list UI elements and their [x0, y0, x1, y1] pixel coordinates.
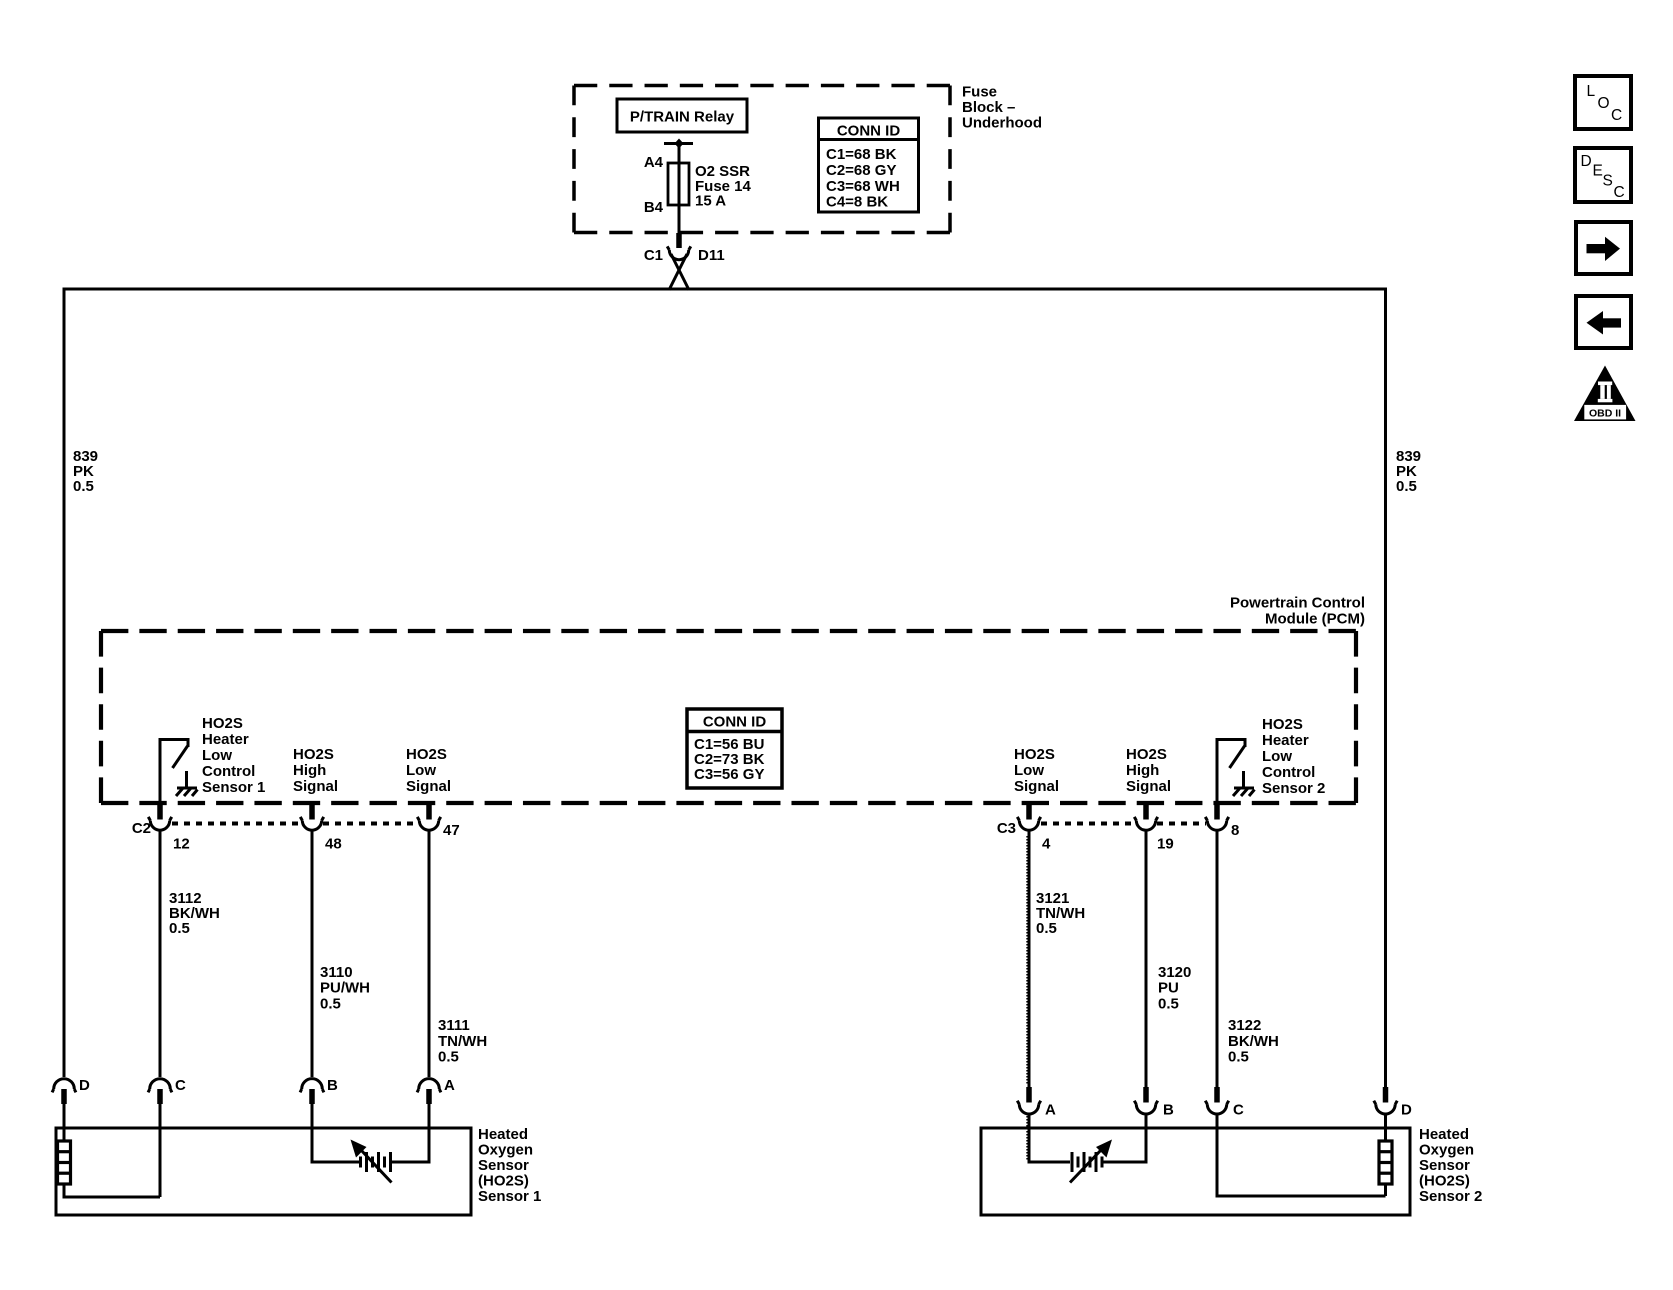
sensor2 variable battery plates: [1072, 1152, 1102, 1172]
wire 3121 dotted edge: [1026, 836, 1028, 1085]
svg-text:C: C: [1233, 1102, 1244, 1119]
svg-text:Fuse: Fuse: [962, 84, 997, 101]
svg-text:Sensor 2: Sensor 2: [1262, 780, 1325, 797]
sensor2 heater bottom wire: [1384, 1184, 1387, 1196]
svg-text:Oxygen: Oxygen: [1419, 1142, 1474, 1159]
HO2S sensor 1 box: [56, 1128, 471, 1215]
svg-text:D: D: [1581, 153, 1592, 170]
svg-text:Low: Low: [1262, 748, 1292, 765]
sensor2 connector cup D: [1383, 1087, 1389, 1103]
PCM pin 47 cup: [417, 817, 440, 830]
svg-text:47: 47: [443, 822, 460, 839]
sensor1 connector cup B: [300, 1079, 324, 1093]
sensor1 wire D into heater: [63, 1104, 66, 1141]
PCM CONN ID table: [687, 709, 782, 788]
svg-text:Control: Control: [1262, 764, 1315, 781]
svg-text:0.5: 0.5: [1036, 920, 1057, 937]
wire 3122 from pin 8: [1216, 830, 1219, 1087]
svg-text:8: 8: [1231, 822, 1239, 839]
PCM pin 4 stub: [1026, 803, 1032, 820]
svg-text:C: C: [1614, 184, 1625, 201]
svg-text:High: High: [293, 762, 326, 779]
svg-text:Signal: Signal: [1014, 778, 1059, 795]
svg-text:A: A: [1045, 1102, 1056, 1119]
fuse block CONN ID table: [819, 118, 919, 212]
P/TRAIN Relay box: [617, 99, 747, 132]
svg-text:TN/WH: TN/WH: [438, 1033, 487, 1050]
chassis ground sensor 1: [176, 788, 198, 797]
right 839 PK wire vertical: [1384, 288, 1387, 1088]
svg-text:C1: C1: [644, 247, 663, 264]
PCM pin 48 cup: [300, 817, 323, 830]
svg-text:Sensor 1: Sensor 1: [478, 1188, 541, 1205]
PCM pin 19 stub: [1143, 803, 1149, 820]
svg-text:C3=68 WH: C3=68 WH: [826, 178, 900, 195]
HO2S heater low control driver sensor 1 (switch + ground): [159, 738, 162, 804]
svg-text:Block –: Block –: [962, 99, 1015, 116]
svg-text:P/TRAIN Relay: P/TRAIN Relay: [630, 109, 735, 126]
sensor2 connector cup C: [1214, 1087, 1220, 1103]
sensor2 wire A dotted edge: [1026, 1116, 1028, 1160]
back arrow glyph: [1587, 311, 1622, 335]
sensor1 connector cup C: [148, 1079, 172, 1093]
wire 3121 from pin 4: [1028, 830, 1031, 1087]
fuse F14 rectangle: [668, 163, 689, 205]
svg-text:(HO2S): (HO2S): [478, 1173, 529, 1190]
svg-text:C: C: [175, 1077, 186, 1094]
svg-text:PU: PU: [1158, 980, 1179, 997]
svg-text:B4: B4: [644, 199, 664, 216]
LOC icon box: [1575, 76, 1631, 129]
svg-text:D11: D11: [698, 247, 725, 264]
PCM pin 48 stub: [309, 803, 315, 820]
svg-text:0.5: 0.5: [320, 996, 341, 1013]
HO2S sensor 2 box: [981, 1128, 1410, 1215]
DESC icon box: [1575, 148, 1631, 202]
C2 dotted connector line: [172, 822, 418, 826]
svg-text:(HO2S): (HO2S): [1419, 1173, 1470, 1190]
svg-text:Signal: Signal: [406, 778, 451, 795]
svg-text:Sensor: Sensor: [1419, 1157, 1470, 1174]
svg-text:C: C: [1611, 107, 1622, 124]
svg-text:Heated: Heated: [478, 1126, 528, 1143]
svg-text:CONN ID: CONN ID: [837, 123, 901, 140]
sensor1 connector cup D: [52, 1079, 76, 1093]
sensor2 battery to B wire: [1104, 1114, 1147, 1162]
sensor1 wire C down: [159, 1104, 162, 1197]
svg-text:Sensor: Sensor: [478, 1157, 529, 1174]
svg-text:B: B: [327, 1077, 338, 1094]
connector C1/D11 cup: [667, 246, 691, 259]
left 839 PK wire vertical: [63, 288, 66, 1078]
svg-text:HO2S: HO2S: [1014, 746, 1055, 763]
OBD II warning triangle: [1574, 366, 1636, 422]
svg-text:0.5: 0.5: [169, 920, 190, 937]
C3 dotted connector line: [1041, 822, 1206, 826]
wire 3110 from pin 48: [311, 830, 314, 1077]
svg-text:S: S: [1603, 173, 1613, 190]
sensor1 variable arrow: [361, 1150, 392, 1183]
svg-text:Control: Control: [202, 763, 255, 780]
svg-text:3110: 3110: [320, 964, 353, 981]
svg-text:CONN ID: CONN ID: [703, 714, 767, 731]
PCM pin 19 cup: [1134, 817, 1157, 830]
svg-text:Low: Low: [406, 762, 436, 779]
svg-text:D: D: [1401, 1102, 1412, 1119]
PCM dashed box: [101, 631, 1356, 803]
svg-text:3111: 3111: [438, 1017, 470, 1034]
svg-text:0.5: 0.5: [1228, 1049, 1249, 1066]
svg-text:PU/WH: PU/WH: [320, 980, 370, 997]
svg-text:BK/WH: BK/WH: [1228, 1033, 1279, 1050]
svg-text:OBD II: OBD II: [1589, 407, 1621, 419]
sensor2 connector cup B: [1143, 1087, 1149, 1103]
sensor2 connector cup A: [1026, 1087, 1032, 1103]
svg-text:0.5: 0.5: [1396, 478, 1417, 495]
wire 3120 from pin 19: [1145, 830, 1148, 1087]
wire 3111 from pin 47: [428, 830, 431, 1077]
svg-text:Underhood: Underhood: [962, 115, 1042, 132]
svg-text:Heated: Heated: [1419, 1126, 1469, 1143]
svg-text:HO2S: HO2S: [293, 746, 334, 763]
wire from bus bar through fuse to box bottom: [678, 144, 681, 234]
svg-text:C3=56 GY: C3=56 GY: [694, 766, 764, 783]
svg-text:3120: 3120: [1158, 964, 1191, 981]
bus bar with junction dot: [664, 142, 693, 145]
fuse block underhood dashed box: [574, 86, 950, 233]
wire split right leg below C1: [671, 254, 689, 290]
sensor2 variable arrow: [1070, 1150, 1101, 1183]
PCM pin 12 stub: [157, 803, 163, 820]
wire split left leg below C1: [669, 254, 687, 290]
sensor1 heater to C wire: [64, 1184, 160, 1197]
svg-text:HO2S: HO2S: [1126, 746, 1167, 763]
svg-text:O: O: [1598, 95, 1610, 112]
svg-text:Oxygen: Oxygen: [478, 1142, 533, 1159]
svg-text:0.5: 0.5: [1158, 996, 1179, 1013]
sensor1 wire B down to battery: [312, 1104, 359, 1162]
forward arrow glyph: [1587, 237, 1621, 261]
svg-text:L: L: [1587, 83, 1596, 100]
svg-text:15 A: 15 A: [695, 193, 726, 210]
svg-text:0.5: 0.5: [73, 478, 94, 495]
main bus wire horizontal: [64, 288, 1386, 291]
svg-text:HO2S: HO2S: [202, 715, 243, 732]
svg-text:Heater: Heater: [202, 731, 249, 748]
svg-text:Module (PCM): Module (PCM): [1265, 611, 1365, 628]
PCM pin 8 stub: [1214, 803, 1220, 820]
svg-text:48: 48: [325, 836, 342, 853]
svg-text:Signal: Signal: [293, 778, 338, 795]
back arrow icon box: [1576, 296, 1631, 348]
sensor1 variable battery plates: [361, 1152, 391, 1172]
PCM pin 12 cup C2: [148, 817, 171, 830]
svg-text:C1=68 BK: C1=68 BK: [826, 146, 897, 163]
svg-text:Low: Low: [202, 747, 232, 764]
svg-text:B: B: [1163, 1102, 1174, 1119]
svg-text:C3: C3: [997, 820, 1016, 837]
svg-text:A4: A4: [644, 154, 664, 171]
svg-text:Sensor 1: Sensor 1: [202, 779, 265, 796]
svg-text:HO2S: HO2S: [1262, 716, 1303, 733]
svg-text:Low: Low: [1014, 762, 1044, 779]
junction dot: [675, 139, 684, 149]
sensor1 connector cup A: [417, 1079, 441, 1093]
svg-text:3122: 3122: [1228, 1017, 1261, 1034]
sensor1 battery to A wire: [392, 1104, 429, 1162]
svg-text:C4=8 BK: C4=8 BK: [826, 194, 888, 211]
heater element sensor 1: [58, 1141, 71, 1184]
connector C1/D11 pin stub: [676, 233, 682, 248]
HO2S heater low control driver sensor 2 (switch + ground): [1216, 738, 1219, 804]
svg-text:A: A: [444, 1077, 455, 1094]
svg-text:D: D: [79, 1077, 90, 1094]
heater element sensor 2: [1379, 1141, 1392, 1184]
svg-text:E: E: [1593, 163, 1603, 180]
svg-text:C2=68 GY: C2=68 GY: [826, 162, 896, 179]
PCM pin 47 stub: [426, 803, 432, 820]
svg-text:Sensor 2: Sensor 2: [1419, 1188, 1482, 1205]
svg-text:Heater: Heater: [1262, 732, 1309, 749]
sensor2 wire C down: [1217, 1114, 1386, 1196]
svg-text:C2: C2: [132, 820, 151, 837]
wire 3112 from pin 12: [159, 830, 162, 1077]
sensor2 wire D into heater: [1384, 1114, 1387, 1141]
svg-text:Powertrain Control: Powertrain Control: [1230, 595, 1365, 612]
sensor2 wire A down to battery: [1029, 1114, 1070, 1162]
svg-text:19: 19: [1157, 836, 1174, 853]
PCM pin 8 cup: [1205, 817, 1228, 830]
chassis ground sensor 2: [1233, 788, 1255, 797]
svg-text:12: 12: [173, 836, 190, 853]
PCM pin 4 cup C3: [1017, 817, 1040, 830]
svg-text:High: High: [1126, 762, 1159, 779]
svg-text:4: 4: [1042, 836, 1051, 853]
svg-text:HO2S: HO2S: [406, 746, 447, 763]
svg-text:Signal: Signal: [1126, 778, 1171, 795]
svg-text:0.5: 0.5: [438, 1049, 459, 1066]
forward arrow icon box: [1576, 222, 1631, 274]
